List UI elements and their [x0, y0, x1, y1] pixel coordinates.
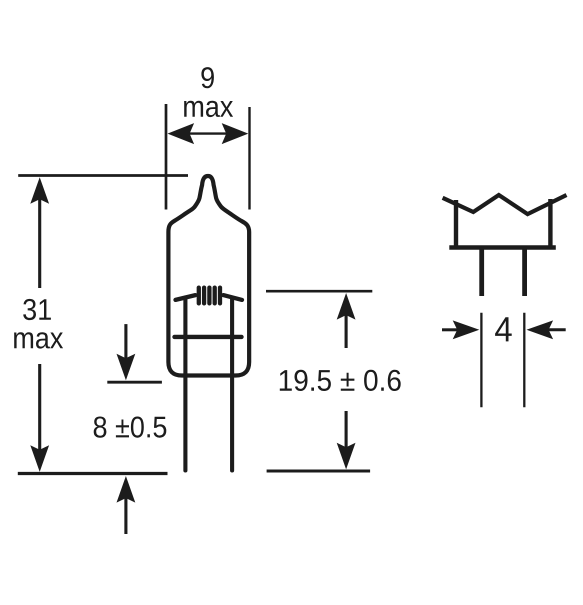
dimension 31 max extension line bottom: [18, 472, 168, 475]
base detail right wall: [548, 199, 552, 248]
dimension 19.5 label: [280, 370, 401, 391]
dimension 9 max extension line left: [165, 104, 168, 210]
dimension 31 max arrow down: [30, 364, 49, 472]
filament coil: [199, 288, 220, 304]
dimension 31 max label: [14, 299, 63, 349]
dimension 4 label: [495, 317, 512, 341]
base detail pin right: [522, 249, 527, 296]
dimension 4 arrow right: [527, 320, 566, 339]
dimension 4 extension line right: [523, 313, 525, 408]
dimension 19.5 arrow down: [337, 411, 356, 469]
dimension 8 arrow up: [117, 476, 136, 534]
dimension 8 arrow down: [117, 324, 136, 380]
bulb outline: [168, 176, 249, 376]
dimension 19.5 extension line bottom: [267, 469, 371, 472]
filament lead left: [176, 295, 196, 300]
dimension 19.5 arrow up: [337, 293, 356, 348]
support wire and pin right: [230, 298, 234, 471]
filament lead right: [223, 295, 242, 300]
dimension 19.5 extension line top: [266, 290, 372, 293]
dimension 9 max label: [184, 67, 233, 117]
dimension 9 max double arrow: [168, 123, 249, 144]
dimension 4 arrow left: [442, 320, 479, 339]
dimension 31 max extension line top: [18, 174, 188, 177]
base detail bottom line: [449, 245, 556, 249]
dimension 31 max arrow up: [30, 177, 49, 288]
support wire and pin left: [183, 298, 187, 471]
pinch crossbar: [175, 335, 242, 339]
dimension 4 extension line left: [480, 313, 482, 408]
dimension 8 extension line: [107, 381, 162, 384]
base detail broken glass zigzag: [443, 195, 567, 214]
dimension 9 max extension line right: [248, 107, 250, 210]
dimension 8 label: [94, 417, 167, 438]
base detail pin left: [479, 249, 484, 296]
base detail left wall: [454, 200, 458, 248]
